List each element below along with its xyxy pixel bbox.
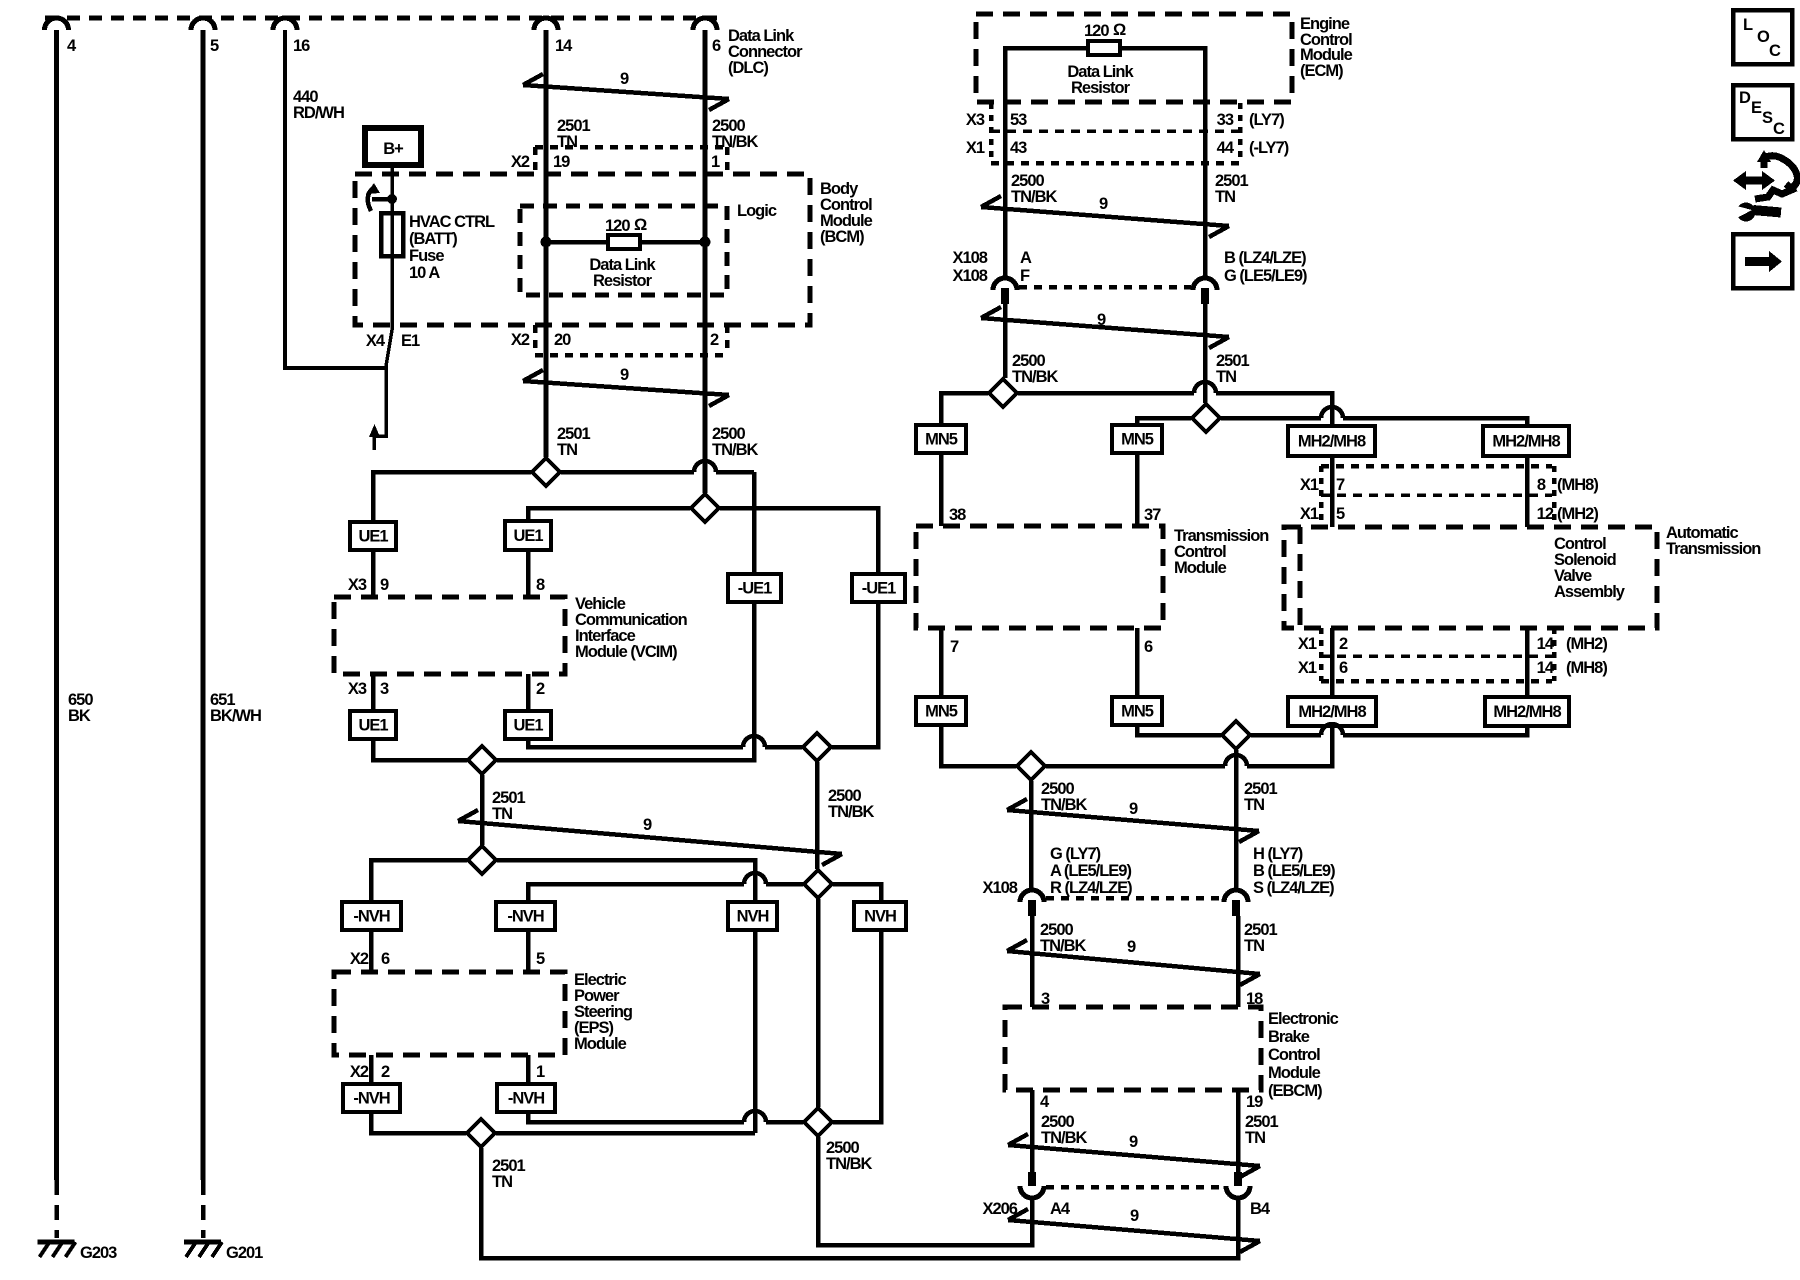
svg-text:Module: Module	[574, 1035, 627, 1053]
svg-text:5: 5	[1336, 505, 1345, 523]
svg-text:7: 7	[950, 638, 959, 656]
svg-text:9: 9	[1129, 800, 1138, 818]
svg-text:2: 2	[710, 331, 719, 349]
twisted pair crossover 9 (ECM)	[981, 207, 1229, 226]
twisted pair crossover 9 (below X206)	[1008, 1220, 1260, 1241]
svg-text:MH2/MH8: MH2/MH8	[1493, 703, 1561, 721]
svg-text:X2: X2	[350, 950, 369, 968]
svg-text:2: 2	[1339, 635, 1348, 653]
connector X1 pin band (solenoid top)	[1321, 464, 1552, 469]
svg-text:NVH: NVH	[864, 908, 896, 926]
in-line connector -NVH (EPS pin 6)	[342, 902, 401, 930]
wire B+ feed through fuse to splice with 440 RD/WH	[374, 165, 392, 450]
node DLC pin 5 cup	[191, 18, 215, 30]
svg-text:19: 19	[553, 153, 570, 171]
in-line connector -NVH (EPS pin 1)	[497, 1084, 555, 1112]
svg-text:(-LY7): (-LY7)	[1249, 139, 1289, 157]
svg-text:6: 6	[1144, 638, 1153, 656]
wire 2501 X108 to EBCM pin 18	[1236, 916, 1241, 1007]
wire MN5 (TCM pin 7) to splice S11	[941, 725, 1016, 766]
svg-text:9: 9	[620, 366, 629, 384]
wire splice S6 to -NVH (EPS pin 5)	[766, 882, 803, 887]
svg-text:H (LY7): H (LY7)	[1253, 845, 1303, 863]
svg-text:B+: B+	[383, 140, 403, 158]
fuse HVAC CTRL (BATT) 10 A	[381, 213, 403, 256]
splice S5 on 2501	[468, 846, 496, 874]
wire hop over MH2/MH8 stem	[1321, 407, 1343, 418]
wire VCIM pin 3 to UE1	[371, 674, 376, 711]
wire EBCM pin 4 to X206 A4	[1030, 1090, 1035, 1172]
svg-text:6: 6	[712, 37, 721, 55]
svg-text:-UE1: -UE1	[738, 580, 772, 598]
svg-text:2: 2	[536, 680, 545, 698]
svg-text:Electronic: Electronic	[1268, 1010, 1339, 1028]
svg-text:X3: X3	[966, 111, 985, 129]
svg-text:14: 14	[555, 37, 573, 55]
junction dot left	[541, 237, 552, 248]
wire 2500 TN/BK (DLC pin 6 down to splice)	[703, 30, 708, 493]
svg-text:G203: G203	[80, 1244, 117, 1262]
svg-text:A (LE5/LE9): A (LE5/LE9)	[1050, 862, 1131, 880]
svg-text:TN: TN	[557, 441, 577, 459]
svg-text:TN: TN	[557, 133, 577, 151]
connector X1 pin band (solenoid bottom)	[1321, 654, 1552, 658]
in-line connector -UE1 (2500 branch)	[852, 574, 905, 602]
splice S10 on 2501	[1192, 404, 1220, 432]
in-line connector MN5 (TCM pin 38)	[916, 425, 966, 453]
wire splice S7 right arm	[496, 1131, 755, 1136]
wire UE1 to VCIM pin 8	[526, 550, 531, 597]
svg-text:120: 120	[1084, 22, 1109, 40]
svg-text:X1: X1	[1298, 635, 1317, 653]
junction dot right	[700, 237, 711, 248]
wire hop over -UE1 stem	[743, 736, 765, 747]
wire 2500 TN/BK (ECM pin 53 down)	[1003, 102, 1008, 278]
svg-text:UE1: UE1	[513, 717, 543, 735]
wire splice S10 to MN5 (TCM pin 37)	[1137, 418, 1191, 425]
splice S2 on 2500	[691, 494, 719, 522]
node DLC pin 14 cup	[534, 18, 558, 30]
svg-text:Brake: Brake	[1268, 1028, 1310, 1046]
wire hop over MH2/MH8 stem	[1321, 724, 1343, 735]
svg-text:6: 6	[381, 950, 390, 968]
wire 2500 X108 to EBCM pin 3	[1030, 916, 1035, 1007]
wire NVH down to splice S8	[833, 930, 881, 1122]
wire MN5 to TCM pin 37	[1135, 453, 1140, 526]
svg-text:X108: X108	[982, 879, 1017, 897]
svg-text:TN: TN	[1244, 796, 1264, 814]
svg-text:Control: Control	[1268, 1046, 1320, 1064]
svg-text:E1: E1	[401, 332, 420, 350]
svg-text:TN: TN	[492, 805, 512, 823]
wire EPS pin 1 to -NVH	[526, 1055, 531, 1084]
splice S9 on 2500	[989, 379, 1017, 407]
in-line connector MH2/MH8 (solenoid pins 14/14)	[1485, 697, 1569, 726]
svg-text:TN/BK: TN/BK	[1041, 1129, 1087, 1147]
svg-text:5: 5	[536, 950, 545, 968]
connector DLC dotted line	[45, 16, 717, 21]
wire -UE1 down to splice S4 (2501)	[497, 602, 754, 760]
svg-text:20: 20	[554, 331, 571, 349]
twisted pair crossover 9 (below BCM)	[523, 381, 729, 395]
svg-text:BK: BK	[68, 707, 91, 725]
in-line connector -NVH (EPS pin 2)	[343, 1084, 400, 1112]
wire 2500 splice S6 down to splice S8	[816, 899, 821, 1107]
wire 650 BK (DLC pin 4 to G203)	[54, 30, 59, 1180]
svg-text:TN/BK: TN/BK	[712, 441, 758, 459]
svg-text:37: 37	[1144, 506, 1161, 524]
icon LOC box	[1733, 10, 1792, 64]
svg-text:12: 12	[1537, 505, 1554, 523]
svg-text:(MH8): (MH8)	[1566, 659, 1607, 677]
wire hop over NVH stem	[744, 1111, 766, 1122]
icon wrench	[1737, 203, 1756, 222]
svg-text:E: E	[1751, 99, 1762, 117]
in-line connector UE1 (VCIM pin 3 branch)	[350, 711, 396, 739]
svg-text:Module: Module	[1174, 559, 1227, 577]
connector X206	[1028, 1172, 1036, 1186]
svg-text:Resistor: Resistor	[593, 272, 653, 290]
svg-text:(MH2): (MH2)	[1566, 635, 1607, 653]
svg-text:9: 9	[1127, 938, 1136, 956]
svg-text:UE1: UE1	[358, 717, 388, 735]
wire MH2/MH8 to solenoid pins 7/5	[1330, 456, 1335, 527]
wire MN5 to TCM pin 38	[939, 453, 944, 526]
wire hop over 2501	[1194, 382, 1216, 393]
svg-text:TN: TN	[1215, 188, 1235, 206]
svg-text:(MH2): (MH2)	[1557, 505, 1598, 523]
svg-text:TN: TN	[1216, 368, 1236, 386]
module Control Solenoid Valve Assembly box	[1284, 527, 1657, 628]
wire data link resistor loop (ECM)	[1005, 48, 1205, 102]
svg-text:120: 120	[605, 217, 630, 235]
svg-text:Ω: Ω	[1113, 21, 1126, 39]
svg-text:14: 14	[1537, 635, 1555, 653]
svg-text:Ω: Ω	[634, 216, 647, 234]
svg-text:(BCM): (BCM)	[820, 228, 864, 246]
module EBCM box	[1005, 1007, 1261, 1090]
wire data link resistor (BCM)	[546, 240, 705, 245]
in-line connector NVH (2500 branch)	[854, 902, 906, 930]
wire splice D1 to -UE1 branch	[561, 470, 694, 475]
svg-text:X4: X4	[366, 332, 386, 350]
module BCM box	[355, 174, 810, 325]
svg-text:NVH: NVH	[737, 908, 769, 926]
splice S1 on 2501	[532, 458, 560, 486]
in-line connector UE1 (VCIM pin 2 branch)	[505, 711, 551, 739]
svg-text:TN: TN	[1245, 1129, 1265, 1147]
svg-text:3: 3	[380, 680, 389, 698]
svg-text:TN: TN	[492, 1173, 512, 1191]
svg-text:Logic: Logic	[737, 202, 777, 220]
node DLC pin 4 cup	[45, 18, 69, 30]
wire splice S12 to MH2/MH8 (2501)	[1251, 733, 1321, 738]
module ECM box	[976, 14, 1292, 102]
svg-text:Transmission: Transmission	[1666, 540, 1761, 558]
svg-text:(LY7): (LY7)	[1249, 111, 1284, 129]
svg-text:MH2/MH8: MH2/MH8	[1492, 433, 1560, 451]
wire 651 BK/WH (DLC pin 5 to G201)	[201, 30, 206, 1180]
svg-text:43: 43	[1010, 139, 1027, 157]
svg-text:1: 1	[711, 153, 720, 171]
svg-text:UE1: UE1	[513, 527, 543, 545]
svg-text:14: 14	[1537, 659, 1555, 677]
power feed B+	[365, 128, 421, 165]
svg-text:X2: X2	[511, 153, 530, 171]
svg-text:A: A	[1020, 249, 1032, 267]
svg-text:MN5: MN5	[1121, 703, 1154, 721]
svg-text:B4: B4	[1250, 1200, 1271, 1218]
svg-text:X3: X3	[348, 680, 367, 698]
module TCM box	[916, 526, 1163, 628]
wire TCM pin 6 to MN5	[1135, 628, 1140, 697]
in-line connector NVH (2501 branch)	[728, 902, 777, 930]
junction dot at fuse feed	[387, 194, 397, 204]
svg-text:D: D	[1739, 89, 1751, 107]
resistor 120 ohm (ECM)	[1088, 41, 1120, 55]
splice S4 on 2501	[468, 746, 496, 774]
wire hop over 2501	[1225, 755, 1247, 766]
wire splice S6 to NVH branch	[833, 884, 881, 902]
svg-text:33: 33	[1217, 111, 1234, 129]
svg-text:X3: X3	[348, 576, 367, 594]
in-line connector MN5 (TCM pin 7)	[916, 697, 966, 725]
svg-text:S: S	[1762, 109, 1773, 127]
in-line connector MN5 (TCM pin 6)	[1112, 697, 1162, 725]
svg-text:C: C	[1773, 120, 1785, 138]
svg-text:R (LZ4/LZE): R (LZ4/LZE)	[1050, 879, 1132, 897]
svg-text:6: 6	[1339, 659, 1348, 677]
wire 651 BK/WH dashed segment	[201, 1180, 206, 1238]
svg-text:(BATT): (BATT)	[409, 230, 457, 248]
splice S6 on 2500	[804, 870, 832, 898]
svg-text:9: 9	[643, 816, 652, 834]
svg-text:B (LZ4/LZE): B (LZ4/LZE)	[1224, 249, 1306, 267]
svg-text:7: 7	[1336, 476, 1345, 494]
svg-text:TN/BK: TN/BK	[1011, 188, 1057, 206]
svg-text:1: 1	[536, 1063, 545, 1081]
twisted pair crossover 9 (DLC)	[523, 85, 729, 99]
wire 2501 TN (DLC pin 14 down to splice)	[544, 30, 549, 457]
svg-text:L: L	[1743, 16, 1753, 34]
svg-text:TN/BK: TN/BK	[712, 133, 758, 151]
connector X2 pin row 20/2 (BCM bottom)	[533, 325, 538, 355]
wire 2500 TN/BK bottom run to X206 A4	[818, 1137, 1032, 1245]
svg-text:UE1: UE1	[358, 528, 388, 546]
svg-text:Resistor: Resistor	[1071, 79, 1131, 97]
wire 2501 TN splice S4 down	[480, 775, 485, 845]
wire 2500 below X108 to splice S9	[1003, 304, 1008, 378]
in-line connector UE1 (VCIM pin 8 branch)	[505, 521, 551, 550]
svg-text:X2: X2	[511, 331, 530, 349]
node DLC pin 16 cup	[273, 18, 297, 30]
svg-text:-NVH: -NVH	[353, 1090, 389, 1108]
svg-text:MH2/MH8: MH2/MH8	[1298, 703, 1366, 721]
wire -NVH to EPS pin 5	[526, 930, 531, 972]
twisted pair crossover 9 (below EBCM)	[1008, 1145, 1260, 1166]
wire 2500 TN/BK splice S3 down	[815, 762, 820, 869]
svg-text:9: 9	[1099, 195, 1108, 213]
logic block box	[520, 206, 727, 295]
svg-text:5: 5	[210, 37, 219, 55]
wire 2501 TN bottom run to X206 B4	[481, 1148, 1238, 1258]
wire UE1 to VCIM pin 9	[371, 550, 376, 597]
svg-text:53: 53	[1010, 111, 1027, 129]
svg-text:Module: Module	[1268, 1064, 1321, 1082]
svg-text:(DLC): (DLC)	[728, 59, 768, 77]
svg-text:9: 9	[1097, 311, 1106, 329]
wire 2501 TN splice S12 down to X108	[1234, 750, 1239, 890]
svg-text:MN5: MN5	[1121, 431, 1154, 449]
svg-text:9: 9	[380, 576, 389, 594]
svg-text:19: 19	[1246, 1093, 1263, 1111]
wire hop (no connection) over 2500	[694, 461, 716, 472]
splice S11 on 2500	[1017, 752, 1045, 780]
wire solenoid pins 2/6 to MH2/MH8	[1330, 628, 1335, 697]
svg-text:F: F	[1020, 267, 1030, 285]
wire hop over NVH stem	[744, 873, 766, 884]
svg-text:2: 2	[381, 1063, 390, 1081]
svg-text:16: 16	[293, 37, 310, 55]
svg-text:-NVH: -NVH	[507, 908, 543, 926]
splice S12 on 2501	[1222, 721, 1250, 749]
wire 2500 TN/BK splice S11 down to X108	[1029, 781, 1034, 890]
wire 2501 TN (ECM pin 33 down)	[1203, 102, 1208, 278]
svg-text:MH2/MH8: MH2/MH8	[1298, 433, 1366, 451]
splice S7 on 2501	[467, 1119, 495, 1147]
wire MH2/MH8 to solenoid pins 8/12	[1525, 456, 1530, 527]
wire splice D1 to UE1 connector (VCIM pin 9)	[373, 472, 531, 522]
svg-text:9: 9	[620, 70, 629, 88]
svg-text:A4: A4	[1050, 1200, 1071, 1218]
wire splice D2 to UE1 connector (VCIM pin 8)	[528, 508, 690, 521]
svg-text:X1: X1	[1300, 476, 1319, 494]
svg-text:Fuse: Fuse	[409, 247, 444, 265]
in-line connector MH2/MH8 (solenoid pins 7/5)	[1288, 426, 1375, 456]
wire NVH down to splice S7	[753, 930, 758, 1133]
in-line connector MN5 (TCM pin 37)	[1112, 425, 1162, 453]
svg-text:G (LE5/LE9): G (LE5/LE9)	[1224, 267, 1307, 285]
wire -UE1 down to splice S3 (2500)	[832, 602, 878, 747]
svg-text:RD/WH: RD/WH	[293, 104, 344, 122]
svg-text:B (LE5/LE9): B (LE5/LE9)	[1253, 862, 1335, 880]
wire splice S10 to MH2/MH8 (solenoid)	[1221, 416, 1321, 421]
wire 440 RD/WH (DLC pin 16)	[285, 30, 387, 368]
svg-text:G (LY7): G (LY7)	[1050, 845, 1101, 863]
icon curved arrow outline	[1764, 156, 1797, 188]
in-line connector MH2/MH8 (solenoid pins 2/6)	[1288, 697, 1376, 726]
wire -NVH (EPS pin 1) to splice S8	[528, 1112, 744, 1122]
wire splice S9 to MH2/MH8 (solenoid)	[1018, 391, 1194, 396]
svg-text:X108: X108	[952, 249, 987, 267]
in-line connector -NVH (EPS pin 5)	[496, 902, 555, 930]
icon DESC box	[1733, 85, 1792, 139]
wire EPS pin 2 to -NVH	[369, 1055, 374, 1084]
ground G201	[184, 1240, 221, 1245]
svg-text:HVAC CTRL: HVAC CTRL	[409, 213, 495, 231]
svg-text:(ECM): (ECM)	[1300, 62, 1343, 80]
in-line connector MH2/MH8 (solenoid pins 8/12)	[1483, 426, 1569, 456]
svg-text:-UE1: -UE1	[862, 580, 896, 598]
wire splice S5 to NVH branch	[497, 860, 755, 902]
svg-text:10 A: 10 A	[409, 264, 440, 282]
inner dashed boundary (solenoid/transmission)	[1298, 527, 1303, 628]
wire splice S5 to -NVH (EPS pin 6)	[371, 860, 467, 902]
svg-text:9: 9	[1130, 1207, 1139, 1225]
wire TCM pin 7 to MN5	[939, 628, 944, 697]
wire splice S11 to MH2/MH8 (2500)	[1046, 764, 1225, 769]
tap arrow at fuse top	[372, 197, 392, 202]
twisted pair crossover 9 (above X108 lower)	[1007, 810, 1259, 831]
svg-text:-NVH: -NVH	[508, 1090, 544, 1108]
wire splice D2 to -UE1 branch	[720, 508, 878, 574]
icon arrow box	[1733, 234, 1792, 288]
twisted pair crossover 9 (below X108 upper)	[981, 318, 1229, 337]
svg-text:TN/BK: TN/BK	[828, 803, 874, 821]
connector pin band (ECM X3/X1)	[989, 103, 994, 162]
connector X2 pin row 19/1 (BCM top)	[535, 145, 727, 150]
svg-text:X1: X1	[966, 139, 985, 157]
svg-text:44: 44	[1217, 139, 1235, 157]
wire solenoid pins 14/14 to MH2/MH8	[1525, 628, 1530, 697]
svg-text:(MH8): (MH8)	[1557, 476, 1598, 494]
wire MN5 (TCM pin 6) to splice S12	[1137, 725, 1221, 735]
ground G203	[38, 1240, 75, 1245]
svg-text:8: 8	[1537, 476, 1546, 494]
resistor 120 ohm (BCM)	[608, 235, 640, 249]
module VCIM box	[334, 597, 565, 674]
svg-text:9: 9	[1129, 1133, 1138, 1151]
svg-text:TN/BK: TN/BK	[826, 1155, 872, 1173]
svg-text:TN/BK: TN/BK	[1040, 937, 1086, 955]
svg-text:-NVH: -NVH	[353, 908, 389, 926]
svg-text:BK/WH: BK/WH	[210, 707, 261, 725]
svg-text:X2: X2	[350, 1063, 369, 1081]
svg-text:8: 8	[536, 576, 545, 594]
wire 650 BK dashed segment	[54, 1180, 59, 1238]
node DLC pin 6 cup	[693, 18, 717, 30]
wire VCIM pin 2 to UE1	[526, 674, 531, 711]
wire -NVH to EPS pin 6	[369, 930, 374, 972]
wire EBCM pin 19 to X206 B4	[1236, 1090, 1241, 1172]
svg-text:Module (VCIM): Module (VCIM)	[575, 643, 677, 661]
in-line connector UE1 (VCIM pin 9 branch)	[350, 522, 396, 550]
svg-text:X108: X108	[952, 267, 987, 285]
module EPS box	[334, 972, 565, 1055]
svg-text:38: 38	[949, 506, 966, 524]
svg-text:TN/BK: TN/BK	[1012, 368, 1058, 386]
twisted pair crossover 9 (above EBCM)	[1007, 951, 1260, 974]
in-line connector -UE1 (2501 branch)	[728, 574, 781, 602]
wire 2501 below X108 to splice S10	[1203, 304, 1208, 403]
wire UE1 (pin 3) to splice S4	[373, 739, 467, 760]
wire -NVH to splice S7	[371, 1112, 466, 1133]
svg-text:X1: X1	[1300, 505, 1319, 523]
splice S3 on 2500	[803, 733, 831, 761]
wire splice S9 to MN5 (TCM pin 38)	[941, 393, 988, 425]
twisted pair crossover 9 (EPS)	[458, 821, 842, 854]
terminal arrow (circuit continues)	[369, 424, 380, 437]
icon double arrow	[1743, 177, 1765, 185]
svg-text:Assembly: Assembly	[1554, 583, 1626, 601]
svg-text:MN5: MN5	[925, 431, 958, 449]
svg-text:C: C	[1769, 42, 1781, 60]
svg-text:S (LZ4/LZE): S (LZ4/LZE)	[1253, 879, 1334, 897]
svg-text:MN5: MN5	[925, 703, 958, 721]
svg-text:G201: G201	[226, 1244, 263, 1262]
svg-text:(EBCM): (EBCM)	[1268, 1082, 1322, 1100]
svg-text:X1: X1	[1298, 659, 1317, 677]
